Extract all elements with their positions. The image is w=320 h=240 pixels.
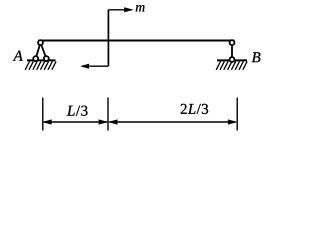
moment top arrowhead xyxy=(124,8,133,13)
moment label m xyxy=(136,5,145,11)
node label B xyxy=(252,52,261,62)
dim arrowhead left (points left) xyxy=(109,120,118,125)
support B hinge circle (top) xyxy=(230,40,235,45)
dimension label L/3 xyxy=(67,106,88,116)
support A ground hatching xyxy=(25,61,56,69)
extension line at load point xyxy=(107,98,109,131)
support A legs xyxy=(36,43,41,59)
moment top arm xyxy=(108,9,126,11)
support B link xyxy=(231,43,233,60)
support A ground line xyxy=(27,59,56,61)
dim arrowhead right (points right) xyxy=(99,120,108,125)
dimension line 2L/3 xyxy=(110,121,236,123)
support B ground hatching xyxy=(216,61,247,69)
node label A xyxy=(13,51,23,61)
moment bottom arrowhead xyxy=(81,64,89,69)
dimension line L/3 xyxy=(44,121,107,123)
extension line at A xyxy=(42,98,44,131)
dim arrowhead left (points left) xyxy=(43,120,52,125)
extension line at B xyxy=(236,98,238,131)
dim arrowhead right (points right) xyxy=(228,120,237,125)
support A base circle right xyxy=(44,56,49,61)
support A base circle left xyxy=(33,56,38,61)
support B ground line xyxy=(217,59,247,61)
support A pin circle (top) xyxy=(38,40,43,45)
dimension label 2L/3 xyxy=(181,104,208,114)
support B roller circle (bottom) xyxy=(230,57,235,62)
moment couple vertical line xyxy=(107,10,109,66)
beam AB xyxy=(39,40,235,42)
moment bottom arm xyxy=(90,65,109,67)
